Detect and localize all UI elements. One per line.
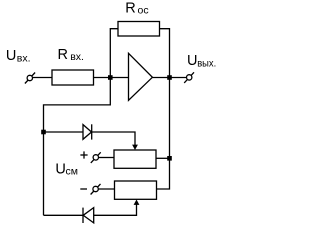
wire op-amp output <box>152 77 186 79</box>
node output junction <box>167 75 172 80</box>
label Uvx <box>6 48 31 65</box>
wire feedback left <box>110 29 118 78</box>
svg-text:R: R <box>125 1 135 17</box>
label plus <box>80 151 87 158</box>
svg-text:см: см <box>66 166 78 178</box>
svg-text:U: U <box>187 53 197 69</box>
label Rvx <box>58 47 84 63</box>
svg-text:вх.: вх. <box>17 53 31 65</box>
resistor Roc <box>118 22 160 37</box>
svg-text:вых.: вых. <box>197 58 216 70</box>
svg-text:R: R <box>58 47 68 63</box>
output terminal <box>184 72 194 83</box>
wire Rvx to op-amp <box>94 77 129 79</box>
label Usm <box>55 162 78 178</box>
node right bus junction <box>167 156 172 161</box>
wire input to Rvx <box>33 77 53 79</box>
op-amp U1 <box>129 53 153 100</box>
svg-text:вх.: вх. <box>70 51 84 63</box>
wire feedback right <box>160 29 170 78</box>
arrow wiper into block B2 <box>134 200 140 205</box>
svg-text:U: U <box>6 48 16 64</box>
input terminal <box>25 73 35 84</box>
plus terminal <box>91 152 101 163</box>
label Uvyh <box>187 53 216 70</box>
diode VD2 <box>83 208 94 223</box>
block B2 offset source minus <box>115 181 157 199</box>
label Roc <box>125 1 148 17</box>
resistor Rvx <box>52 70 94 85</box>
minus terminal <box>91 184 101 195</box>
node diode branch junction <box>41 130 46 135</box>
wire right bus down to block B2 <box>157 78 170 190</box>
node input junction <box>108 75 113 80</box>
wire minus terminal to block B2 <box>98 188 114 190</box>
block B1 offset source plus <box>114 150 156 168</box>
wire block B1 to right bus <box>156 157 170 159</box>
svg-text:U: U <box>55 162 65 178</box>
wire diode VD2 to wiper <box>94 204 137 215</box>
wire input node down and left <box>44 78 111 216</box>
wire bottom from left bus to diode VD2 <box>44 214 84 216</box>
wire plus terminal to block B1 <box>99 157 115 159</box>
arrow wiper into block B1 <box>132 145 138 150</box>
diode VD1 <box>83 124 92 139</box>
wire diode VD1 to wiper <box>92 132 135 145</box>
wire to diode VD1 <box>44 131 84 133</box>
svg-text:ос: ос <box>138 5 149 17</box>
label minus <box>80 188 87 190</box>
